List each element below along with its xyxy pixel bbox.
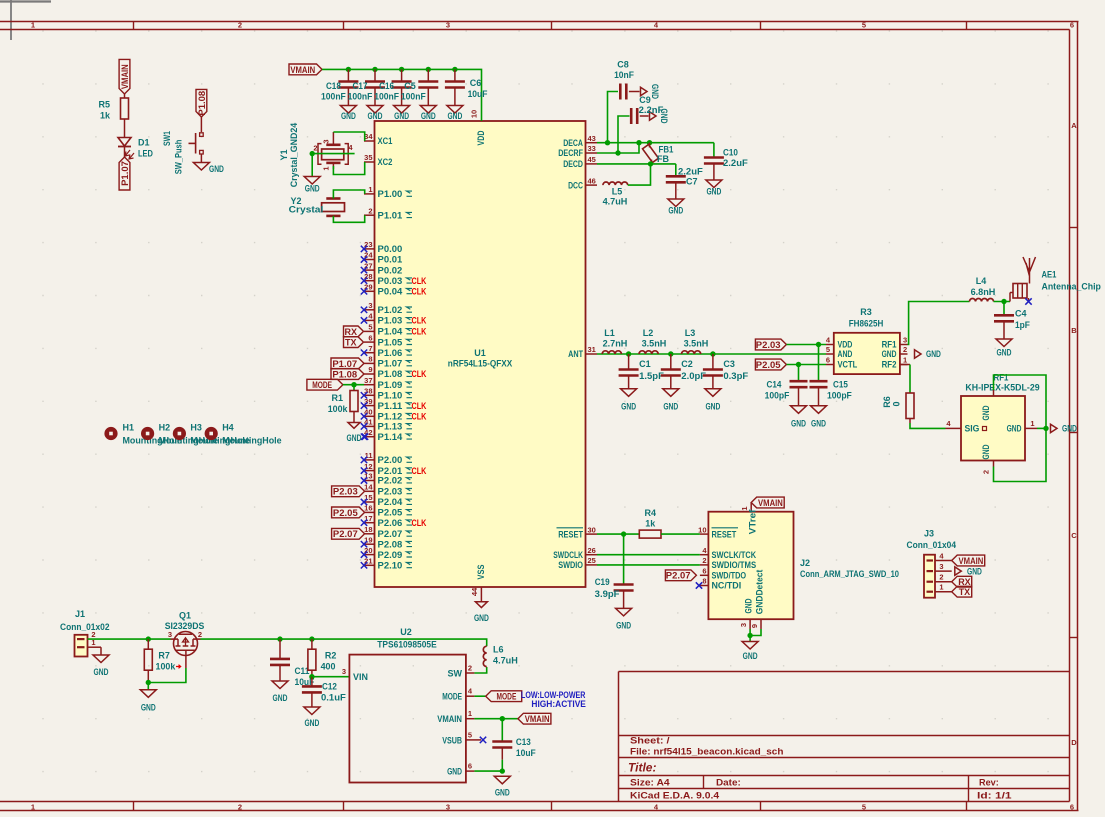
svg-text:GND: GND bbox=[141, 703, 156, 713]
svg-text:SWDCLK: SWDCLK bbox=[553, 550, 583, 560]
svg-text:P1.08: P1.08 bbox=[378, 369, 403, 379]
svg-text:L2: L2 bbox=[643, 328, 654, 338]
svg-text:2: 2 bbox=[702, 556, 706, 565]
svg-text:9: 9 bbox=[368, 365, 372, 374]
svg-text:CLK: CLK bbox=[412, 276, 427, 286]
svg-text:GND: GND bbox=[650, 84, 660, 99]
svg-text:2: 2 bbox=[313, 144, 317, 153]
svg-text:33: 33 bbox=[588, 144, 596, 153]
svg-text:35: 35 bbox=[364, 153, 372, 162]
svg-text:LED: LED bbox=[138, 149, 153, 159]
svg-text:DECD: DECD bbox=[563, 159, 583, 169]
svg-text:1: 1 bbox=[1030, 419, 1034, 428]
svg-text:ANT: ANT bbox=[568, 349, 583, 359]
svg-text:L5: L5 bbox=[612, 187, 623, 197]
svg-text:P2.03: P2.03 bbox=[378, 487, 403, 497]
svg-text:GND: GND bbox=[743, 651, 758, 661]
svg-text:P1.13: P1.13 bbox=[378, 422, 403, 432]
svg-text:P2.05: P2.05 bbox=[756, 360, 781, 370]
svg-text:2: 2 bbox=[468, 664, 472, 673]
svg-text:GND: GND bbox=[1007, 424, 1022, 434]
svg-text:RF1: RF1 bbox=[882, 340, 897, 350]
svg-text:R4: R4 bbox=[645, 508, 657, 518]
svg-text:4.7uH: 4.7uH bbox=[603, 197, 628, 207]
svg-text:SWDIO/TMS: SWDIO/TMS bbox=[712, 560, 757, 570]
svg-text:GND: GND bbox=[495, 788, 510, 798]
svg-text:D1: D1 bbox=[138, 138, 150, 148]
svg-text:R1: R1 bbox=[331, 393, 343, 403]
svg-text:MountingHole: MountingHole bbox=[222, 436, 281, 446]
svg-text:GND: GND bbox=[706, 187, 721, 197]
svg-text:DCC: DCC bbox=[568, 180, 583, 190]
svg-text:400: 400 bbox=[321, 662, 336, 672]
svg-text:8: 8 bbox=[368, 355, 372, 364]
svg-text:Q1: Q1 bbox=[179, 611, 191, 621]
svg-text:3: 3 bbox=[446, 803, 450, 812]
svg-text:GND: GND bbox=[347, 433, 362, 443]
svg-text:CLK: CLK bbox=[412, 287, 427, 297]
svg-text:SW: SW bbox=[448, 669, 463, 679]
svg-text:P1.12: P1.12 bbox=[378, 412, 403, 422]
svg-text:6: 6 bbox=[702, 567, 706, 576]
svg-text:DECA: DECA bbox=[563, 138, 583, 148]
svg-text:C4: C4 bbox=[1015, 309, 1027, 319]
svg-text:P2.01: P2.01 bbox=[378, 466, 403, 476]
svg-text:RF2: RF2 bbox=[882, 360, 897, 370]
svg-text:P2.03: P2.03 bbox=[756, 340, 781, 350]
svg-text:AND: AND bbox=[838, 349, 853, 359]
svg-text:FH8625H: FH8625H bbox=[849, 319, 884, 329]
svg-text:P2.07: P2.07 bbox=[333, 529, 358, 539]
svg-text:GND: GND bbox=[811, 419, 826, 429]
svg-text:2.2nF: 2.2nF bbox=[639, 105, 664, 115]
svg-text:P1.06: P1.06 bbox=[378, 348, 403, 358]
svg-text:GND: GND bbox=[668, 206, 683, 216]
svg-text:Sheet: /: Sheet: / bbox=[630, 736, 670, 746]
svg-text:VSS: VSS bbox=[476, 565, 486, 580]
svg-text:2.7nH: 2.7nH bbox=[603, 339, 628, 349]
svg-text:H2: H2 bbox=[159, 423, 171, 433]
svg-text:GND: GND bbox=[209, 164, 224, 174]
svg-text:R2: R2 bbox=[325, 651, 337, 661]
svg-text:P1.02: P1.02 bbox=[378, 305, 403, 315]
svg-text:43: 43 bbox=[588, 134, 596, 143]
svg-text:GND: GND bbox=[273, 693, 288, 703]
svg-text:KiCad E.D.A. 9.0.4: KiCad E.D.A. 9.0.4 bbox=[630, 791, 719, 801]
svg-text:MODE: MODE bbox=[442, 692, 462, 702]
svg-text:GND: GND bbox=[967, 566, 982, 576]
svg-text:VMAIN: VMAIN bbox=[290, 65, 315, 75]
svg-text:GND: GND bbox=[304, 718, 319, 728]
svg-text:RESET: RESET bbox=[558, 529, 583, 539]
svg-text:C1: C1 bbox=[639, 359, 651, 369]
svg-text:File: nrf54l15_beacon.kicad_sc: File: nrf54l15_beacon.kicad_sch bbox=[630, 747, 784, 757]
svg-text:P2.04: P2.04 bbox=[378, 497, 403, 507]
svg-text:3: 3 bbox=[446, 21, 450, 30]
svg-text:2: 2 bbox=[939, 573, 943, 582]
svg-text:GND: GND bbox=[926, 349, 941, 359]
svg-text:P1.03: P1.03 bbox=[378, 316, 403, 326]
svg-text:P1.08: P1.08 bbox=[197, 91, 207, 116]
svg-text:VMAIN: VMAIN bbox=[758, 498, 783, 508]
svg-text:P2.02: P2.02 bbox=[378, 476, 403, 486]
svg-text:100k: 100k bbox=[156, 662, 177, 672]
svg-text:GND: GND bbox=[744, 598, 754, 613]
svg-text:31: 31 bbox=[588, 345, 596, 354]
svg-text:100nF: 100nF bbox=[374, 92, 399, 102]
svg-text:10nF: 10nF bbox=[614, 70, 634, 80]
svg-text:P1.04: P1.04 bbox=[378, 327, 403, 337]
svg-text:8: 8 bbox=[702, 577, 706, 586]
svg-text:1: 1 bbox=[322, 166, 331, 170]
svg-text:GND: GND bbox=[305, 184, 320, 194]
svg-text:HIGH:ACTIVE: HIGH:ACTIVE bbox=[531, 699, 586, 709]
svg-text:GND: GND bbox=[663, 402, 678, 412]
svg-text:44: 44 bbox=[470, 587, 479, 596]
svg-text:C3: C3 bbox=[723, 359, 735, 369]
svg-text:P2.03: P2.03 bbox=[333, 487, 358, 497]
svg-text:0: 0 bbox=[892, 401, 902, 406]
svg-text:2: 2 bbox=[903, 345, 907, 354]
svg-text:H1: H1 bbox=[123, 423, 135, 433]
svg-text:SWD/TDO: SWD/TDO bbox=[712, 571, 747, 581]
svg-text:GND: GND bbox=[341, 111, 356, 121]
svg-text:VCTL: VCTL bbox=[838, 360, 858, 370]
svg-text:GND: GND bbox=[94, 667, 109, 677]
svg-text:1: 1 bbox=[368, 185, 372, 194]
svg-text:34: 34 bbox=[364, 132, 373, 141]
svg-text:3: 3 bbox=[168, 630, 172, 639]
svg-text:3: 3 bbox=[368, 301, 372, 310]
svg-text:H4: H4 bbox=[222, 423, 234, 433]
svg-text:3: 3 bbox=[342, 667, 346, 676]
svg-text:2: 2 bbox=[368, 206, 372, 215]
svg-text:Title:: Title: bbox=[628, 761, 656, 775]
svg-text:CLK: CLK bbox=[412, 327, 427, 337]
svg-text:14: 14 bbox=[364, 483, 373, 492]
svg-text:P1.00: P1.00 bbox=[378, 189, 403, 199]
svg-text:10: 10 bbox=[470, 110, 479, 118]
svg-text:3.5nH: 3.5nH bbox=[684, 339, 709, 349]
svg-text:3: 3 bbox=[322, 139, 331, 143]
svg-text:2: 2 bbox=[238, 21, 242, 30]
svg-text:VSUB: VSUB bbox=[442, 735, 462, 745]
svg-text:A: A bbox=[1071, 121, 1077, 130]
svg-text:U2: U2 bbox=[400, 627, 412, 637]
svg-text:2: 2 bbox=[238, 803, 242, 812]
svg-text:3: 3 bbox=[903, 336, 907, 345]
svg-text:P1.07: P1.07 bbox=[332, 359, 357, 369]
svg-text:R6: R6 bbox=[882, 396, 892, 408]
svg-text:SW_Push: SW_Push bbox=[174, 140, 184, 175]
svg-text:2.2uF: 2.2uF bbox=[723, 158, 748, 168]
svg-text:5: 5 bbox=[862, 803, 866, 812]
svg-text:3.9pF: 3.9pF bbox=[595, 589, 620, 599]
svg-text:GND: GND bbox=[447, 111, 462, 121]
svg-text:4.7uH: 4.7uH bbox=[493, 656, 518, 666]
svg-text:VMAIN: VMAIN bbox=[959, 556, 984, 566]
svg-text:C: C bbox=[1071, 531, 1077, 540]
svg-text:C5: C5 bbox=[404, 81, 416, 91]
svg-text:26: 26 bbox=[588, 546, 596, 555]
svg-text:P1.08: P1.08 bbox=[332, 369, 357, 379]
svg-text:P1.07: P1.07 bbox=[120, 161, 130, 186]
svg-text:GND: GND bbox=[421, 111, 436, 121]
svg-text:5: 5 bbox=[862, 21, 866, 30]
svg-text:L6: L6 bbox=[493, 645, 504, 655]
svg-text:GND: GND bbox=[368, 111, 383, 121]
svg-text:B: B bbox=[1071, 326, 1077, 335]
svg-text:100pF: 100pF bbox=[827, 391, 852, 401]
svg-text:Size: A4: Size: A4 bbox=[630, 778, 670, 788]
svg-text:6: 6 bbox=[1070, 803, 1074, 812]
svg-text:C8: C8 bbox=[617, 60, 629, 70]
svg-text:SW1: SW1 bbox=[162, 131, 172, 146]
svg-text:J2: J2 bbox=[800, 558, 810, 568]
svg-text:5: 5 bbox=[826, 345, 830, 354]
svg-text:GND: GND bbox=[981, 405, 991, 420]
svg-text:P2.08: P2.08 bbox=[378, 539, 403, 549]
svg-text:SWCLK/TCK: SWCLK/TCK bbox=[712, 550, 757, 560]
svg-text:Id: 1/1: Id: 1/1 bbox=[977, 791, 1012, 801]
svg-text:VMAIN: VMAIN bbox=[437, 714, 462, 724]
svg-text:CLK: CLK bbox=[412, 369, 427, 379]
svg-text:CLK: CLK bbox=[412, 412, 427, 422]
svg-text:P0.00: P0.00 bbox=[378, 244, 403, 254]
svg-text:3: 3 bbox=[939, 562, 943, 571]
svg-text:1.5pF: 1.5pF bbox=[639, 371, 664, 381]
svg-text:C13: C13 bbox=[516, 737, 531, 747]
svg-text:16: 16 bbox=[364, 504, 372, 513]
svg-text:TX: TX bbox=[959, 587, 971, 597]
svg-text:Conn_01x04: Conn_01x04 bbox=[907, 540, 957, 550]
svg-text:CLK: CLK bbox=[412, 466, 427, 476]
svg-text:Y1: Y1 bbox=[279, 149, 289, 160]
svg-text:6: 6 bbox=[1070, 21, 1074, 30]
svg-text:100k: 100k bbox=[328, 404, 349, 414]
svg-text:GND: GND bbox=[621, 402, 636, 412]
svg-text:AE1: AE1 bbox=[1042, 270, 1057, 280]
svg-text:GND: GND bbox=[447, 767, 462, 777]
svg-text:6: 6 bbox=[826, 356, 830, 365]
svg-text:3: 3 bbox=[739, 623, 748, 627]
svg-text:D: D bbox=[1071, 738, 1077, 747]
svg-text:VIN: VIN bbox=[353, 672, 368, 682]
svg-text:TX: TX bbox=[345, 338, 357, 348]
svg-text:9: 9 bbox=[750, 624, 759, 628]
svg-text:P1.07: P1.07 bbox=[378, 359, 403, 369]
svg-text:C19: C19 bbox=[595, 577, 610, 587]
svg-text:H3: H3 bbox=[190, 423, 202, 433]
svg-text:GND: GND bbox=[997, 348, 1012, 358]
svg-text:GND: GND bbox=[981, 444, 991, 459]
svg-text:P1.10: P1.10 bbox=[378, 391, 403, 401]
svg-text:2: 2 bbox=[198, 630, 202, 639]
svg-text:5: 5 bbox=[468, 730, 472, 739]
svg-text:2.0pF: 2.0pF bbox=[681, 371, 706, 381]
svg-text:J1: J1 bbox=[75, 609, 85, 619]
svg-text:P2.05: P2.05 bbox=[378, 508, 403, 518]
svg-text:10: 10 bbox=[698, 525, 706, 534]
svg-text:P0.02: P0.02 bbox=[378, 265, 403, 275]
svg-text:VDD: VDD bbox=[476, 130, 486, 145]
svg-text:L1: L1 bbox=[604, 328, 615, 338]
svg-text:C7: C7 bbox=[686, 177, 698, 187]
svg-text:GND: GND bbox=[474, 613, 489, 623]
svg-text:6.8nH: 6.8nH bbox=[971, 287, 996, 297]
svg-text:MODE: MODE bbox=[497, 692, 517, 702]
svg-text:0.1uF: 0.1uF bbox=[321, 693, 346, 703]
svg-text:1: 1 bbox=[31, 803, 35, 812]
svg-text:P1.09: P1.09 bbox=[378, 380, 403, 390]
svg-text:10uF: 10uF bbox=[468, 89, 488, 99]
svg-text:RX: RX bbox=[344, 327, 357, 337]
svg-text:nRF54L15-QFXX: nRF54L15-QFXX bbox=[448, 359, 512, 369]
svg-text:Conn_01x02: Conn_01x02 bbox=[60, 622, 110, 632]
svg-text:MODE: MODE bbox=[312, 380, 332, 390]
svg-text:P2.10: P2.10 bbox=[378, 561, 403, 571]
svg-text:C15: C15 bbox=[833, 380, 848, 390]
svg-text:45: 45 bbox=[588, 155, 596, 164]
svg-text:P2.07: P2.07 bbox=[666, 571, 691, 581]
svg-text:L3: L3 bbox=[685, 328, 696, 338]
svg-text:P2.05: P2.05 bbox=[333, 508, 358, 518]
svg-text:U1: U1 bbox=[474, 348, 486, 358]
svg-text:NC/TDI: NC/TDI bbox=[712, 581, 742, 591]
svg-text:P1.14: P1.14 bbox=[378, 432, 403, 442]
svg-text:R5: R5 bbox=[98, 100, 110, 110]
svg-text:C12: C12 bbox=[322, 682, 337, 692]
svg-text:C16: C16 bbox=[379, 81, 394, 91]
svg-text:P2.00: P2.00 bbox=[378, 455, 403, 465]
svg-text:GND: GND bbox=[791, 419, 806, 429]
svg-text:VMAIN: VMAIN bbox=[525, 714, 550, 724]
svg-text:C9: C9 bbox=[639, 95, 651, 105]
svg-text:Conn_ARM_JTAG_SWD_10: Conn_ARM_JTAG_SWD_10 bbox=[800, 569, 899, 579]
svg-text:CLK: CLK bbox=[412, 518, 427, 528]
svg-text:Antenna_Chip: Antenna_Chip bbox=[1042, 282, 1102, 292]
svg-text:2.2uF: 2.2uF bbox=[678, 167, 703, 177]
svg-text:100nF: 100nF bbox=[401, 92, 426, 102]
svg-text:FB: FB bbox=[657, 154, 669, 164]
svg-text:VMAIN: VMAIN bbox=[120, 64, 130, 89]
svg-text:1k: 1k bbox=[100, 111, 111, 121]
svg-text:2: 2 bbox=[982, 470, 991, 474]
svg-text:1k: 1k bbox=[645, 519, 656, 529]
svg-text:P0.04: P0.04 bbox=[378, 287, 403, 297]
svg-text:P1.05: P1.05 bbox=[378, 337, 403, 347]
svg-text:P2.09: P2.09 bbox=[378, 550, 403, 560]
svg-text:SWDIO: SWDIO bbox=[558, 560, 583, 570]
svg-text:P2.06: P2.06 bbox=[378, 518, 403, 528]
svg-text:J3: J3 bbox=[924, 529, 934, 539]
svg-text:Crystal_GND24: Crystal_GND24 bbox=[289, 123, 299, 187]
svg-text:GNDDetect: GNDDetect bbox=[755, 570, 765, 615]
svg-text:GND: GND bbox=[882, 349, 897, 359]
svg-text:DECRF: DECRF bbox=[558, 148, 583, 158]
svg-text:KH-IPEX-K5DL-29: KH-IPEX-K5DL-29 bbox=[965, 383, 1039, 393]
svg-text:R3: R3 bbox=[860, 307, 872, 317]
svg-text:R7: R7 bbox=[158, 651, 170, 661]
svg-text:P0.01: P0.01 bbox=[378, 255, 403, 265]
svg-text:1: 1 bbox=[903, 356, 907, 365]
svg-text:30: 30 bbox=[588, 525, 596, 534]
svg-text:1: 1 bbox=[939, 583, 943, 592]
svg-text:37: 37 bbox=[364, 376, 372, 385]
svg-text:RESET: RESET bbox=[712, 529, 737, 539]
svg-text:GND: GND bbox=[705, 402, 720, 412]
svg-text:Date:: Date: bbox=[716, 778, 741, 788]
svg-text:CLK: CLK bbox=[412, 401, 427, 411]
svg-text:46: 46 bbox=[588, 176, 596, 185]
svg-text:10uF: 10uF bbox=[516, 748, 536, 758]
svg-text:5: 5 bbox=[368, 323, 372, 332]
svg-text:6: 6 bbox=[468, 762, 472, 771]
svg-text:XC1: XC1 bbox=[378, 136, 393, 146]
svg-text:1: 1 bbox=[31, 21, 35, 30]
svg-text:P0.03: P0.03 bbox=[378, 276, 403, 286]
svg-text:GND: GND bbox=[616, 621, 631, 631]
svg-text:7: 7 bbox=[368, 344, 372, 353]
svg-text:3.5nH: 3.5nH bbox=[642, 339, 667, 349]
svg-text:6: 6 bbox=[368, 333, 372, 342]
svg-text:XC2: XC2 bbox=[378, 157, 393, 167]
svg-text:CLK: CLK bbox=[412, 316, 427, 326]
svg-text:GND: GND bbox=[1062, 424, 1077, 434]
svg-text:L4: L4 bbox=[976, 276, 987, 286]
svg-text:C10: C10 bbox=[723, 148, 738, 158]
svg-text:P1.01: P1.01 bbox=[378, 210, 403, 220]
svg-text:100pF: 100pF bbox=[765, 391, 790, 401]
svg-text:VDD: VDD bbox=[838, 340, 853, 350]
svg-text:C17: C17 bbox=[353, 81, 368, 91]
svg-text:GND: GND bbox=[394, 111, 409, 121]
svg-text:C18: C18 bbox=[326, 81, 341, 91]
svg-text:C2: C2 bbox=[681, 359, 693, 369]
svg-text:18: 18 bbox=[364, 525, 372, 534]
svg-text:Rev:: Rev: bbox=[979, 778, 999, 788]
svg-text:100nF: 100nF bbox=[348, 92, 373, 102]
svg-text:TPS61098505E: TPS61098505E bbox=[377, 640, 436, 650]
svg-text:25: 25 bbox=[588, 556, 596, 565]
svg-text:1pF: 1pF bbox=[1015, 320, 1030, 330]
svg-text:P2.07: P2.07 bbox=[378, 529, 403, 539]
svg-text:SIG: SIG bbox=[965, 424, 980, 434]
svg-text:P1.11: P1.11 bbox=[378, 401, 403, 411]
svg-text:100nF: 100nF bbox=[321, 92, 346, 102]
svg-text:Crystal: Crystal bbox=[289, 204, 324, 214]
svg-text:VTref: VTref bbox=[748, 509, 758, 535]
svg-text:0.3pF: 0.3pF bbox=[723, 371, 748, 381]
svg-text:C6: C6 bbox=[470, 78, 482, 88]
svg-text:1: 1 bbox=[468, 709, 472, 718]
svg-text:C14: C14 bbox=[767, 380, 782, 390]
